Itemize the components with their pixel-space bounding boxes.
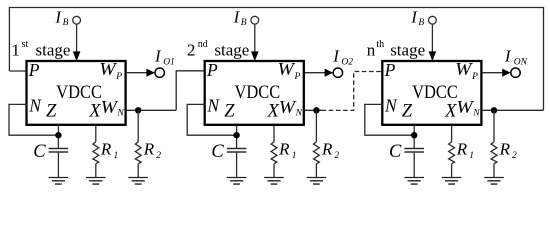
svg-text:N: N [116,108,124,118]
svg-text:1: 1 [11,41,20,60]
svg-text:2: 2 [512,151,517,161]
svg-text:VDCC: VDCC [412,82,458,103]
svg-text:W: W [278,59,296,79]
svg-text:n: n [367,41,376,60]
svg-text:O1: O1 [163,58,175,68]
svg-text:B: B [241,18,247,28]
svg-text:X: X [267,101,280,121]
svg-text:W: W [455,59,473,79]
svg-text:C: C [33,142,46,162]
svg-text:I: I [154,47,162,66]
svg-text:W: W [279,97,297,117]
svg-text:1: 1 [469,151,474,161]
svg-text:N: N [472,108,480,118]
svg-text:P: P [471,72,478,82]
svg-text:R: R [499,139,511,158]
svg-text:C: C [211,142,224,162]
svg-text:Z: Z [402,101,413,121]
svg-text:2: 2 [187,41,196,60]
svg-text:I: I [410,7,418,26]
svg-text:I: I [504,47,512,66]
svg-text:N: N [28,95,42,115]
svg-text:C: C [389,142,402,162]
svg-text:R: R [143,139,155,158]
svg-text:st: st [22,39,29,50]
svg-text:W: W [101,97,119,117]
svg-text:W: W [99,59,117,79]
svg-text:X: X [88,101,101,121]
svg-text:P: P [384,60,396,80]
svg-text:I: I [332,47,340,66]
svg-text:VDCC: VDCC [56,82,102,103]
svg-text:N: N [206,95,220,115]
svg-text:Z: Z [46,101,57,121]
svg-text:X: X [444,101,457,121]
svg-text:stage: stage [390,41,425,60]
svg-text:R: R [321,139,333,158]
svg-text:P: P [294,72,301,82]
svg-text:N: N [384,95,398,115]
svg-text:Z: Z [224,101,235,121]
svg-text:R: R [278,139,290,158]
svg-text:th: th [376,39,384,50]
svg-text:B: B [63,18,69,28]
svg-text:W: W [456,97,474,117]
svg-text:I: I [54,7,62,26]
svg-text:stage: stage [36,41,71,60]
svg-text:O2: O2 [341,58,353,68]
svg-text:2: 2 [334,151,339,161]
svg-text:2: 2 [156,151,161,161]
svg-text:ON: ON [514,58,528,68]
svg-text:VDCC: VDCC [235,82,281,103]
svg-text:1: 1 [114,151,119,161]
svg-text:R: R [456,139,468,158]
svg-text:N: N [295,108,303,118]
svg-text:P: P [28,60,40,80]
svg-text:1: 1 [292,151,297,161]
svg-text:nd: nd [198,39,208,50]
svg-text:R: R [100,139,112,158]
svg-text:P: P [206,60,218,80]
svg-text:stage: stage [214,41,249,60]
svg-text:B: B [418,18,424,28]
svg-text:I: I [233,7,241,26]
svg-text:P: P [115,72,122,82]
